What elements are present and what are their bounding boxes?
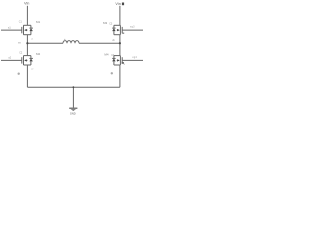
svg-text:M3: M3 <box>103 21 107 25</box>
svg-text:C3: C3 <box>109 23 113 26</box>
svg-text:s1: s1 <box>31 38 34 40</box>
svg-text:va: va <box>18 42 21 45</box>
svg-text:M4: M4 <box>104 52 108 56</box>
svg-text:vg3: vg3 <box>130 26 135 29</box>
svg-text:C1: C1 <box>19 20 23 23</box>
svg-text:Vin: Vin <box>115 2 120 6</box>
svg-text:M2: M2 <box>36 52 40 56</box>
svg-text:C2: C2 <box>19 51 23 54</box>
svg-text:s2: s2 <box>31 69 34 71</box>
svg-text:vg4: vg4 <box>132 56 137 59</box>
svg-text:Vin: Vin <box>24 1 29 5</box>
svg-text:s: s <box>124 63 126 66</box>
svg-text:a2: a2 <box>8 57 11 60</box>
svg-text:vb: vb <box>112 39 115 42</box>
svg-text:a1: a1 <box>8 26 11 29</box>
svg-text:M1: M1 <box>36 20 40 24</box>
svg-text:GND: GND <box>70 111 76 115</box>
